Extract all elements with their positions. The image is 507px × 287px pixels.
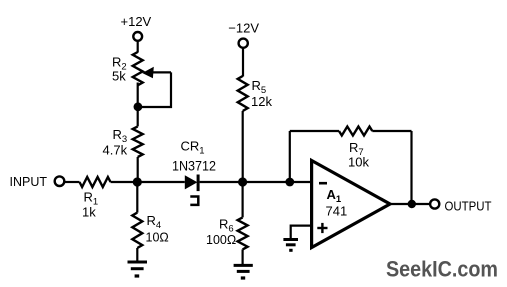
svg-text:5k: 5k xyxy=(112,69,126,84)
wire diode to node B xyxy=(200,181,312,183)
svg-text:10k: 10k xyxy=(348,155,369,170)
wire feedback left vertical xyxy=(289,131,291,182)
resistor R1 xyxy=(80,177,111,187)
wire noninverting input xyxy=(291,226,312,239)
wire wiper loop right side xyxy=(138,72,171,107)
resistor R2 xyxy=(133,52,143,85)
resistor R4 xyxy=(132,213,142,248)
svg-text:100Ω: 100Ω xyxy=(206,233,236,247)
svg-text:4.7k: 4.7k xyxy=(103,143,128,158)
wire input terminal to R1 xyxy=(64,181,79,183)
resistor R3 xyxy=(133,126,143,157)
svg-text:+12V: +12V xyxy=(121,14,152,29)
svg-text:INPUT: INPUT xyxy=(10,174,48,189)
wire junction to R6 xyxy=(242,182,244,217)
svg-text:CR1: CR1 xyxy=(181,138,205,156)
wire R5 to main node xyxy=(242,111,244,182)
input terminal xyxy=(55,176,65,186)
svg-text:OUTPUT: OUTPUT xyxy=(445,199,492,214)
svg-text:741: 741 xyxy=(326,204,348,219)
wire R6 to ground xyxy=(242,249,244,264)
wire feedback right vertical xyxy=(410,131,412,204)
svg-text:10Ω: 10Ω xyxy=(146,231,169,245)
tunnel diode cathode bracket xyxy=(190,197,198,205)
wire R4 to ground xyxy=(136,248,138,262)
output terminal xyxy=(430,199,439,208)
wire junction to R4 xyxy=(136,182,138,213)
wire feedback top left segment xyxy=(290,130,339,132)
node junction R5/R6 xyxy=(238,177,247,186)
wire junction to R3 xyxy=(137,107,139,126)
svg-text:R4: R4 xyxy=(147,213,162,231)
tunnel diode CR1 xyxy=(185,175,200,192)
ground under R6 xyxy=(234,265,253,278)
svg-text:SeekIC.com: SeekIC.com xyxy=(386,257,498,282)
wire R2 bottom to junction xyxy=(137,83,139,108)
op-amp A1 xyxy=(312,161,390,248)
potentiometer wiper arrow xyxy=(142,67,171,78)
junction dot wiper tap xyxy=(134,102,143,111)
wire -12V terminal to R5 xyxy=(242,48,244,77)
node junction R3/R4 xyxy=(133,177,142,186)
op-amp minus sign xyxy=(319,182,327,185)
+12V supply terminal xyxy=(121,14,152,41)
wire +12V terminal to R2 xyxy=(137,41,139,53)
svg-text:1k: 1k xyxy=(82,205,96,220)
wire R1 to diode xyxy=(111,181,185,183)
ground at op-amp noninverting input xyxy=(283,240,298,251)
node junction inverting input / feedback xyxy=(285,178,294,187)
op-amp plus sign xyxy=(317,223,327,233)
resistor R7 xyxy=(339,127,372,136)
node junction output / feedback xyxy=(408,200,416,208)
svg-text:1N3712: 1N3712 xyxy=(172,158,216,173)
resistor R6 xyxy=(238,217,248,249)
wire R3 to main node xyxy=(137,157,139,182)
resistor R5 xyxy=(238,76,248,111)
svg-text:−12V: −12V xyxy=(228,21,259,36)
svg-text:R6: R6 xyxy=(219,216,234,234)
wire feedback top right segment xyxy=(372,130,411,132)
svg-text:12k: 12k xyxy=(251,94,272,109)
ground under R4 xyxy=(128,262,148,276)
wire op-amp output xyxy=(390,203,430,205)
-12V supply terminal xyxy=(228,21,259,48)
